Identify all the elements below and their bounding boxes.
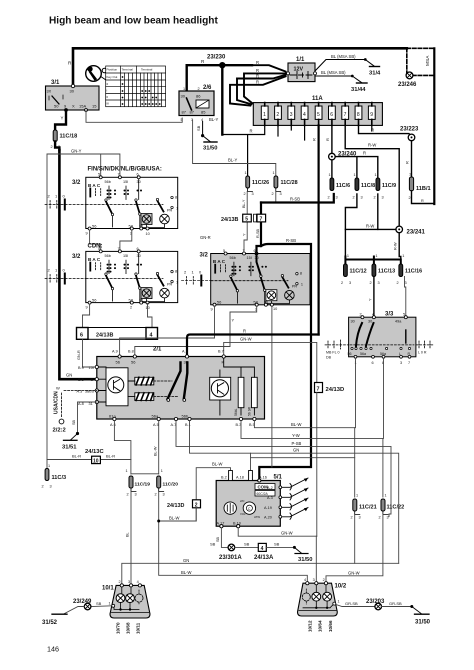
wire fuse1 to 11C/26 branch [222, 125, 264, 176]
fuse 11C/19 [126, 469, 151, 497]
svg-text:9: 9 [211, 308, 213, 312]
svg-text:7: 7 [317, 386, 320, 392]
svg-text:2: 2 [42, 485, 44, 489]
svg-text:High beam and low beam headlig: High beam and low beam headlight [49, 16, 218, 27]
svg-text:BL: BL [126, 532, 130, 537]
wire R from fuse5 to 2/1 terminal 30 [187, 335, 319, 357]
svg-text:31/50: 31/50 [415, 620, 431, 626]
junction dot [201, 134, 204, 137]
svg-text:B.5: B.5 [249, 423, 255, 427]
svg-text:3: 3 [163, 493, 165, 497]
svg-text:6: 6 [372, 361, 374, 365]
contact blades [106, 202, 112, 214]
svg-text:87: 87 [182, 110, 187, 115]
svg-text:GN-R: GN-R [77, 350, 81, 360]
svg-text:Y: Y [232, 318, 235, 323]
svg-text:2: 2 [397, 281, 399, 285]
svg-text:1: 1 [245, 171, 247, 175]
svg-text:11A: 11A [312, 96, 323, 102]
wire 11C/13 to 3/3 pin4 [373, 277, 375, 318]
svg-text:31/50: 31/50 [298, 557, 313, 563]
wire 23/230 down to relay 2/6 pin1 [185, 65, 187, 91]
wire 11C/22 down GN-W to 10/2 pin2 [326, 515, 383, 584]
svg-text:11C/18: 11C/18 [60, 134, 78, 140]
turn signal switch 3/3 [348, 312, 416, 365]
ground 31/50 (relay) [203, 136, 218, 152]
svg-text:24/13D: 24/13D [167, 503, 184, 509]
svg-text:3X: 3X [47, 90, 52, 94]
wire 23/249 to ground 31/52 [64, 607, 84, 614]
svg-text:3: 3 [349, 281, 351, 285]
wire 11C/19 down BL to 10/1 pin3 [130, 492, 132, 584]
svg-text:BL-Y: BL-Y [209, 117, 219, 122]
svg-text:1: 1 [48, 464, 50, 468]
svg-text:PR: PR [292, 285, 298, 289]
lamp parking dashed [302, 593, 310, 601]
table texts [107, 68, 153, 106]
svg-text:R: R [325, 138, 330, 141]
svg-text:11C/9: 11C/9 [382, 183, 396, 189]
node 23/246 [406, 72, 413, 79]
svg-text:56: 56 [116, 360, 121, 365]
svg-text:R: R [363, 151, 366, 156]
svg-text:BL-R: BL-R [106, 454, 115, 459]
wire 10/2 pin1 to 23/203 GR-SB [336, 605, 375, 607]
wire labels R x4 [256, 60, 259, 85]
svg-text:3: 3 [400, 361, 402, 365]
wire fuse2 stub [277, 125, 279, 136]
svg-text:A.1: A.1 [182, 350, 188, 354]
lever FIN 2 1 0 [45, 194, 86, 210]
fuse 11C/21 [351, 494, 377, 520]
wire GN branch to 5/1 A.18 [251, 453, 355, 470]
svg-text:SB: SB [96, 601, 102, 606]
svg-text:BL-W: BL-W [181, 570, 192, 575]
svg-text:BL-W: BL-W [169, 515, 180, 520]
svg-text:DB: DB [326, 356, 332, 360]
svg-text:R: R [250, 129, 253, 134]
svg-text:2: 2 [353, 196, 355, 200]
svg-text:A.5: A.5 [153, 423, 159, 427]
svg-text:5/1: 5/1 [274, 475, 283, 481]
svg-text:1: 1 [409, 173, 411, 177]
svg-text:56: 56 [92, 223, 97, 228]
wire battery feeds R (fan) [230, 65, 286, 105]
internal wires [114, 587, 139, 610]
mech dashed [350, 344, 414, 346]
svg-text:MB FL 0: MB FL 0 [326, 351, 339, 355]
svg-text:31/4: 31/4 [369, 71, 381, 77]
internal wires right [220, 359, 255, 415]
svg-text:II: II [107, 95, 109, 99]
svg-text:A.2: A.2 [267, 486, 273, 490]
svg-text:3: 3 [252, 192, 254, 196]
svg-text:23/301A: 23/301A [219, 555, 242, 561]
svg-text:5: 5 [317, 112, 320, 118]
svg-text:8: 8 [300, 272, 302, 276]
wire 11C/16 to 3/3 pin5 [405, 277, 406, 318]
svg-text:1: 1 [273, 171, 275, 175]
svg-text:GR-SB: GR-SB [345, 601, 358, 606]
svg-text:23/223: 23/223 [400, 127, 419, 133]
svg-text:R-SB: R-SB [286, 238, 296, 243]
wire GN rail to 10/1 pin2 [122, 563, 399, 583]
svg-text:8: 8 [357, 112, 360, 118]
svg-text:15I: 15I [123, 180, 128, 184]
svg-text:3/2: 3/2 [72, 180, 81, 186]
wires CDN bottom to connector 24/13B [83, 304, 153, 328]
right terminals [171, 196, 173, 198]
svg-text:30: 30 [181, 94, 186, 99]
svg-text:SB: SB [274, 541, 280, 546]
fuse box 11A [253, 96, 382, 125]
svg-text:1: 1 [183, 87, 185, 91]
svg-text:1: 1 [176, 207, 178, 211]
svg-text:2: 2 [198, 87, 200, 91]
svg-text:11C/12: 11C/12 [350, 269, 367, 275]
svg-text:W: W [56, 386, 60, 391]
svg-text:56: 56 [131, 360, 136, 365]
svg-text:SB: SB [244, 541, 250, 546]
wire BL-W from 2/1 B.5 [254, 421, 354, 428]
fuse 11C/3 [42, 464, 67, 489]
svg-text:R-W: R-W [394, 242, 398, 250]
wire main feed top (R) [73, 48, 407, 86]
svg-text:31/44: 31/44 [351, 87, 366, 93]
lever 3/3 right L 0 R [416, 341, 433, 355]
svg-text:USA/CDN: USA/CDN [54, 391, 60, 414]
wire 11C/28 to R-SB rail [275, 192, 277, 203]
fuse 11C/26 [244, 171, 270, 196]
svg-text:2/2:2: 2/2:2 [53, 428, 66, 434]
svg-text:R: R [405, 161, 410, 164]
fuse 11C/13 [370, 264, 396, 285]
wire 11C/18 to spine [55, 142, 59, 151]
svg-text:1: 1 [161, 469, 163, 473]
svg-text:1: 1 [375, 254, 377, 258]
svg-text:R-W: R-W [366, 223, 374, 228]
ground 31/52 [42, 614, 67, 626]
wire R-W rail 23/241 [345, 228, 396, 230]
wire 23/223 to 11B/1 [411, 141, 413, 177]
svg-text:2: 2 [323, 578, 325, 582]
svg-text:10/11: 10/11 [135, 622, 140, 634]
fuse 11C/22 [379, 494, 405, 520]
svg-text:24/13D: 24/13D [326, 387, 345, 393]
svg-text:1: 1 [263, 112, 266, 118]
resistor 56bL [238, 377, 244, 407]
connector [10] 24/13C [92, 456, 101, 463]
connector [4] 24/13A [258, 543, 266, 551]
svg-text:10: 10 [273, 307, 277, 311]
svg-text:1: 1 [301, 283, 303, 287]
wire 23/241 down to 11C/16 [399, 233, 401, 264]
fuse 11C/18 [51, 130, 78, 149]
wire fuse7 to 23/241 (R-W) [345, 125, 399, 225]
svg-text:BL-W: BL-W [291, 422, 302, 427]
svg-text:SB: SB [72, 419, 76, 425]
dashed links to contacts [154, 381, 178, 397]
wire main 3/2 pin9 to 2/1 A.9 (Y) [120, 306, 215, 357]
indicator circle 2 [243, 502, 255, 514]
svg-text:11C/21: 11C/21 [359, 505, 377, 511]
wire 5/1 B.10 GN-W [238, 528, 317, 536]
wire R-SB branch to 5/1 A.16 [259, 244, 311, 481]
svg-text:A.3: A.3 [77, 389, 83, 393]
svg-text:11C/3: 11C/3 [52, 475, 67, 481]
lamp in square [141, 214, 152, 225]
wire 10/1 pin1 to 23/249 [91, 605, 112, 608]
svg-text:CDN:: CDN: [88, 244, 103, 250]
svg-text:B.6: B.6 [78, 378, 84, 382]
svg-text:6: 6 [330, 112, 333, 118]
svg-text:30: 30 [70, 89, 75, 94]
svg-text:3/2: 3/2 [200, 253, 209, 259]
svg-text:11C/28: 11C/28 [281, 180, 298, 186]
ignition switch 3/1 [46, 80, 100, 112]
svg-text:3/1: 3/1 [51, 80, 60, 86]
tiny texts [240, 499, 260, 519]
svg-text:56a: 56a [360, 352, 366, 356]
svg-text:2: 2 [328, 196, 330, 200]
wires FIN bottom to CDN top [90, 230, 132, 251]
wire [2] down BL-W join [159, 508, 197, 521]
bottom terminals [109, 414, 189, 419]
node 23/249 [84, 603, 91, 610]
svg-text:56b: 56b [105, 180, 111, 184]
svg-text:R: R [256, 80, 259, 85]
connector symbol 2/2:2 [59, 419, 64, 424]
wire 2/6 pin4 to ground SB [202, 122, 204, 136]
svg-text:11C/19: 11C/19 [135, 482, 151, 488]
svg-text:3: 3 [359, 516, 361, 520]
svg-text:2: 2 [244, 192, 246, 196]
svg-text:15I: 15I [89, 366, 94, 370]
svg-text:30: 30 [368, 320, 372, 324]
svg-text:1: 1 [385, 494, 387, 498]
fuse 11C/28 [272, 171, 298, 196]
fuse 11C/12 [341, 264, 367, 285]
svg-text:VOL: VOL [240, 512, 246, 516]
svg-text:5: 5 [245, 216, 248, 222]
svg-text:BL (MSA SB): BL (MSA SB) [321, 70, 346, 75]
internal unit right with transistor [210, 377, 231, 400]
connector [2] 24/13D [167, 500, 201, 509]
wire 2/6 pin3 BL-Y to 11C/28 [193, 120, 276, 176]
svg-text:11C/22: 11C/22 [387, 505, 405, 511]
svg-text:SB: SB [216, 536, 220, 542]
svg-text:BL-Y: BL-Y [242, 199, 246, 208]
svg-text:GN-W: GN-W [348, 570, 360, 575]
svg-text:2: 2 [272, 192, 274, 196]
svg-text:23/249: 23/249 [73, 599, 92, 605]
wire fuse6 to 23/240 [331, 125, 333, 153]
top terminals [112, 350, 224, 354]
svg-text:23/203: 23/203 [366, 599, 385, 605]
lamp high beam [126, 594, 135, 603]
svg-text:15A: 15A [79, 104, 86, 109]
svg-text:6: 6 [80, 333, 83, 339]
svg-text:FIN/S/N/DK/NL/B/GB/USA:: FIN/S/N/DK/NL/B/GB/USA: [88, 167, 162, 173]
lever 3/3 left MB FL DB [325, 340, 349, 360]
svg-text:R: R [421, 199, 424, 203]
svg-text:2/D: 2/D [240, 499, 244, 503]
svg-text:GN-R: GN-R [200, 235, 211, 240]
svg-text:Position: Position [107, 68, 118, 72]
svg-text:X: X [72, 104, 75, 109]
wire [7] R-SB thick down to 3/2 pin6 [257, 203, 262, 253]
svg-text:B.8: B.8 [128, 350, 134, 354]
svg-text:11B/1: 11B/1 [416, 186, 431, 192]
svg-text:2: 2 [379, 516, 381, 520]
svg-text:49a: 49a [395, 320, 402, 324]
hatched couplers [128, 377, 154, 400]
svg-text:1: 1 [338, 599, 340, 603]
svg-text:23/230: 23/230 [207, 55, 226, 61]
svg-text:15I: 15I [247, 256, 252, 260]
svg-text:31/52: 31/52 [42, 620, 58, 626]
svg-text:R-SB: R-SB [290, 197, 300, 202]
blades [356, 323, 362, 346]
junction dot [293, 546, 296, 549]
svg-text:4: 4 [137, 580, 139, 584]
svg-text:9: 9 [370, 112, 373, 118]
svg-text:3: 3 [313, 578, 315, 582]
svg-text:10: 10 [146, 232, 150, 236]
lamp low beam [116, 594, 125, 603]
svg-text:3: 3 [128, 580, 130, 584]
resistor 56bR [252, 377, 258, 407]
wire 24/13A to ground [266, 546, 294, 548]
svg-text:50: 50 [54, 104, 59, 109]
svg-text:1: 1 [329, 173, 331, 177]
wire fuse9 stub [371, 125, 373, 131]
ground 31/50 (dash panel) [294, 547, 312, 563]
svg-text:SB: SB [210, 541, 216, 546]
svg-text:3/3: 3/3 [385, 312, 394, 318]
connector 24/13B [6][4] [77, 328, 158, 340]
svg-text:P-SB: P-SB [292, 441, 302, 446]
svg-text:GN-W: GN-W [240, 336, 252, 341]
wire 11C/26 to connector [5] (BL-Y) [246, 192, 248, 215]
svg-text:3: 3 [280, 192, 282, 196]
svg-text:BL (MSA SB): BL (MSA SB) [331, 54, 356, 59]
svg-text:2: 2 [127, 493, 129, 497]
wire fuse bus 11C/12-16 [345, 257, 400, 265]
node 23/203 [375, 603, 382, 610]
svg-text:3: 3 [387, 516, 389, 520]
headlight 10/2 [298, 578, 347, 616]
svg-text:GN-Y: GN-Y [71, 149, 82, 154]
arrows from 5/1 outputs [282, 478, 308, 520]
fuse 11C/20 [155, 469, 179, 497]
node 23/230 [219, 62, 225, 68]
svg-text:8: 8 [175, 196, 177, 200]
svg-text:1: 1 [354, 173, 356, 177]
wire 23/203 to ground 31/50 [382, 606, 412, 608]
wire 3/1 to 11C/18 (Y) [55, 110, 66, 130]
svg-text:A.19: A.19 [264, 506, 272, 510]
svg-text:87: 87 [190, 110, 195, 115]
svg-text:11C/20: 11C/20 [163, 482, 179, 488]
svg-text:2: 2 [374, 196, 376, 200]
ignition position table [106, 66, 166, 107]
svg-text:24/13A: 24/13A [254, 555, 274, 561]
wire fuse5 to relay 2/1 (R) [318, 125, 320, 334]
svg-text:31/51: 31/51 [62, 445, 77, 451]
svg-text:3: 3 [361, 196, 363, 200]
battery 1/1 [287, 57, 317, 82]
fuse 11C/16 [397, 264, 423, 285]
wire 23/240 rail R to 11C/8 11C/9 [332, 157, 378, 178]
connector 24/13B [5][7] [221, 214, 266, 223]
svg-text:7: 7 [408, 361, 410, 365]
headlight switch 3/2 (CDN) [72, 247, 178, 310]
right terminals with arrows [264, 486, 273, 520]
svg-text:146: 146 [47, 645, 59, 654]
lamp parking dashed [135, 594, 143, 602]
svg-text:A.20: A.20 [264, 516, 272, 520]
wire 11C/9 down to R-W rail [377, 194, 379, 229]
svg-text:11C/6: 11C/6 [336, 183, 350, 189]
svg-text:BL-R: BL-R [72, 454, 81, 459]
svg-text:56: 56 [348, 352, 352, 356]
fuse 11C/8 [353, 173, 376, 200]
wire 24/13B[6] to 2/1 B.9 (GN-R) [83, 339, 97, 367]
svg-text:56 bR: 56 bR [247, 406, 251, 416]
wire main 3/2 pin2 to 2/1 B.8 [135, 306, 257, 357]
wire 11C/3 feed BL-R [47, 459, 131, 461]
svg-text:7: 7 [344, 112, 347, 118]
wire GN-Y [47, 154, 120, 472]
ground 31/44 [351, 83, 367, 93]
svg-text:3: 3 [336, 196, 338, 200]
wire BL-W to 5/1 B.2 [196, 468, 230, 521]
table dots [122, 76, 161, 105]
svg-text:10/64: 10/64 [318, 620, 323, 632]
svg-text:58bS: 58bS [85, 389, 94, 393]
svg-text:3: 3 [50, 485, 52, 489]
svg-text:B.9: B.9 [78, 366, 84, 370]
svg-text:R-SB: R-SB [256, 228, 260, 238]
svg-text:1: 1 [356, 494, 358, 498]
svg-text:A.18: A.18 [236, 476, 244, 480]
svg-text:3: 3 [382, 196, 384, 200]
svg-text:2: 2 [341, 281, 343, 285]
svg-text:1: 1 [126, 469, 128, 473]
svg-text:2: 2 [276, 112, 279, 118]
wire link fuse tops [131, 473, 159, 475]
svg-text:B.3: B.3 [236, 423, 242, 427]
svg-text:1: 1 [109, 601, 111, 605]
internal wires [303, 585, 334, 608]
junction dot [157, 520, 160, 523]
svg-text:56b: 56b [230, 256, 236, 260]
svg-text:23/241: 23/241 [407, 230, 426, 236]
svg-text:10: 10 [93, 458, 99, 464]
ignition key symbol [86, 66, 107, 82]
svg-text:Y: Y [61, 116, 64, 121]
svg-text:MSA: MSA [425, 55, 431, 66]
node 23/301A [228, 544, 235, 551]
svg-text:2/6: 2/6 [203, 85, 212, 91]
lamp low beam [323, 592, 332, 601]
svg-text:2: 2 [51, 145, 53, 149]
dashed W link [62, 391, 97, 418]
svg-text:B.2: B.2 [221, 476, 227, 480]
svg-text:2: 2 [409, 196, 411, 200]
wire R-SB rail upper [261, 194, 334, 203]
